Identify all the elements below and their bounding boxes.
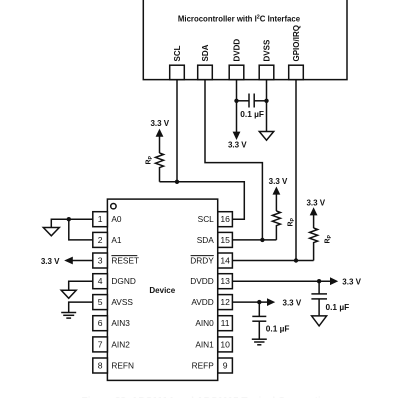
pin 3 RESET (93, 253, 139, 268)
IC U2 Device (107, 199, 217, 380)
svg-text:1: 1 (98, 214, 103, 224)
svg-text:RP: RP (146, 155, 155, 164)
supply 3.3V (SCL pull-up) (150, 119, 169, 153)
svg-text:REFN: REFN (111, 361, 134, 371)
svg-text:5: 5 (98, 297, 103, 307)
pin 16 SCL (198, 212, 233, 227)
svg-text:RP: RP (325, 234, 334, 243)
svg-text:9: 9 (223, 361, 228, 371)
svg-text:7: 7 (98, 339, 103, 349)
svg-text:3.3 V: 3.3 V (269, 177, 288, 186)
svg-text:3.3 V: 3.3 V (342, 278, 361, 287)
svg-text:14: 14 (220, 256, 230, 266)
pin 15 SDA (197, 232, 233, 247)
pin 5 AVSS (93, 295, 134, 310)
svg-text:4: 4 (98, 276, 103, 286)
node junction AVDD-C3 (257, 300, 261, 304)
svg-text:SCL: SCL (173, 45, 182, 61)
wire DVDD pin13 to supply (232, 280, 330, 282)
pin SCL (microcontroller) (170, 45, 185, 79)
svg-text:SCL: SCL (198, 214, 215, 224)
wire SDA from microcontroller (205, 80, 262, 240)
svg-text:8: 8 (98, 361, 103, 371)
svg-text:AVSS: AVSS (111, 297, 133, 307)
pin 11 AIN0 (195, 316, 232, 331)
node junction DVSS-C1 (264, 99, 268, 103)
pin 4 DGND (93, 274, 136, 289)
svg-text:0.1 µF: 0.1 µF (240, 109, 264, 119)
svg-text:3: 3 (98, 256, 103, 266)
resistor R2 Rp (SDA pull-up) (272, 211, 295, 240)
svg-text:DGND: DGND (111, 276, 135, 286)
wire RESET to 3.3V (41, 257, 93, 266)
svg-text:RESET: RESET (111, 256, 139, 266)
svg-text:16: 16 (220, 214, 230, 224)
svg-text:A1: A1 (111, 235, 122, 245)
supply arrow 3.3V (DVDD pin13) (330, 277, 362, 286)
pin 12 AVDD (191, 295, 232, 310)
ground (C3, earth) (252, 339, 267, 345)
svg-text:0.1 µF: 0.1 µF (266, 324, 290, 334)
svg-text:A0: A0 (111, 214, 122, 224)
node junction SCL (175, 180, 179, 184)
ground (C2, triangle) (312, 316, 327, 326)
wire SCL vertical from microcontroller (176, 80, 178, 182)
wire DVSS stub (266, 80, 268, 132)
svg-text:AIN0: AIN0 (195, 318, 214, 328)
svg-text:DRDY: DRDY (190, 256, 214, 266)
pin 6 AIN3 (93, 316, 130, 331)
ground (A0/A1, triangle) (43, 228, 59, 236)
pin GPIO/IRQ (microcontroller) (289, 25, 304, 80)
svg-text:3.3 V: 3.3 V (283, 299, 302, 308)
pin SDA (microcontroller) (198, 44, 213, 79)
supply 3.3V (DRDY pull-up) (306, 198, 325, 228)
svg-text:10: 10 (220, 339, 230, 349)
wire A1 to A0 (69, 219, 93, 240)
svg-text:AIN3: AIN3 (111, 318, 130, 328)
svg-text:AIN2: AIN2 (111, 339, 130, 349)
supply 3.3V (SDA pull-up) (269, 177, 288, 211)
pin DVDD (microcontroller) (229, 39, 244, 80)
wire DRDY net pin14 (232, 260, 313, 262)
svg-text:13: 13 (220, 276, 230, 286)
wire DGND to ground (69, 281, 93, 290)
wire GPIO/IRQ vertical (295, 80, 297, 261)
svg-text:6: 6 (98, 318, 103, 328)
node junction A0-A1 (67, 217, 71, 221)
svg-text:2: 2 (98, 235, 103, 245)
pin 13 DVDD (190, 274, 232, 289)
svg-text:Microcontroller with I2C Inter: Microcontroller with I2C Interface (178, 14, 301, 23)
node junction DRDY-GPIO (294, 258, 298, 262)
node junction DVDD-C1 (234, 99, 238, 103)
node junction SDA (260, 238, 264, 242)
capacitor C2 0.1uF (DVDD) (311, 281, 349, 316)
svg-text:3.3 V: 3.3 V (228, 141, 247, 150)
resistor R3 Rp (DRDY pull-up) (310, 228, 333, 261)
svg-text:AVDD: AVDD (191, 297, 213, 307)
pin 14 DRDY (190, 253, 232, 268)
supply arrow 3.3V (DVDD down) (228, 132, 247, 150)
svg-text:15: 15 (220, 235, 230, 245)
svg-text:DVSS: DVSS (262, 39, 271, 61)
svg-text:AIN1: AIN1 (195, 339, 214, 349)
resistor R1 Rp (SCL pull-up) (146, 153, 164, 182)
svg-text:0.1 µF: 0.1 µF (326, 302, 350, 312)
caption fragment (cut off) (82, 396, 339, 398)
wire DVDD stub (236, 80, 238, 133)
pin DVSS (microcontroller) (259, 39, 274, 80)
svg-text:3.3 V: 3.3 V (41, 257, 60, 266)
svg-text:12: 12 (220, 297, 230, 307)
pin 10 AIN1 (195, 337, 232, 352)
svg-text:SDA: SDA (201, 44, 210, 61)
pin 8 REFN (93, 358, 134, 373)
wire AVSS to ground (69, 302, 93, 312)
ground (DGND, triangle) (61, 290, 76, 298)
capacitor C3 0.1uF (AVDD) (252, 302, 289, 339)
svg-text:3.3 V: 3.3 V (306, 198, 325, 207)
wire A0 to ground (51, 219, 93, 227)
svg-text:DVDD: DVDD (190, 276, 214, 286)
svg-text:Device: Device (149, 286, 175, 295)
pin 2 A1 (93, 232, 122, 247)
wire AVDD pin12 to supply (232, 301, 267, 303)
label: Microcontroller with I2C Interface (178, 14, 301, 23)
svg-text:SDA: SDA (197, 235, 215, 245)
microcontroller block U1 (143, 0, 347, 80)
pin 1 A0 (93, 212, 122, 227)
svg-text:GPIO/IRQ: GPIO/IRQ (292, 25, 301, 61)
ground (DVSS, triangle) (259, 132, 273, 141)
supply arrow 3.3V (AVDD pin12) (267, 298, 302, 307)
capacitor C1 0.1uF (DVDD-DVSS) (237, 94, 267, 120)
pin 7 AIN2 (93, 337, 130, 352)
wire SDA net pin15 (232, 239, 276, 241)
svg-text:3.3 V: 3.3 V (150, 119, 169, 128)
wire SCL net horizontal (160, 182, 245, 219)
svg-text:11: 11 (221, 318, 230, 328)
svg-text:DVDD: DVDD (232, 39, 241, 62)
svg-text:RP: RP (287, 217, 296, 226)
svg-text:REFP: REFP (192, 361, 215, 371)
ground (AVSS, earth) (61, 313, 76, 319)
pin 9 REFP (192, 358, 233, 373)
node junction DVDD-C2 (317, 279, 321, 283)
